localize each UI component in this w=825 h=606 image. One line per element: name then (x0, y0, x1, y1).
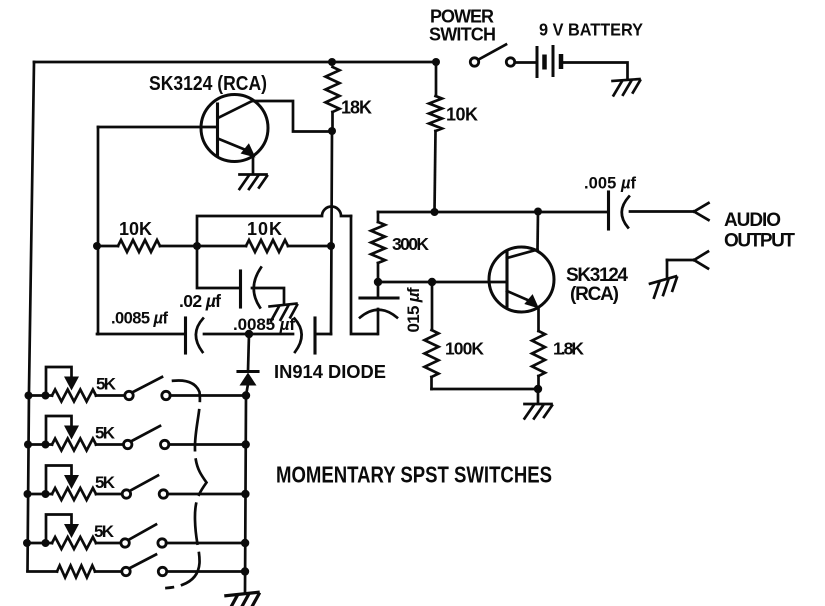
svg-text:POWER: POWER (430, 7, 494, 27)
wire caps line left (97, 333, 183, 336)
wire row 5 to bus (167, 570, 245, 573)
svg-text:.005 µf: .005 µf (584, 175, 637, 193)
capacitor C2 .0085uf plate (184, 318, 187, 353)
switch row 4 pole (96, 542, 124, 545)
capacitor C1 .02uf plate (239, 271, 242, 307)
connector audio return (667, 259, 694, 262)
transistor Q1 (98, 95, 268, 162)
switch row 3 throw (159, 490, 167, 498)
wire cap to output (630, 210, 694, 213)
node 100K top (428, 278, 436, 286)
potentiometer R1 5K (29, 367, 97, 402)
node bus row 3 (24, 490, 32, 498)
svg-text:OUTPUT: OUTPUT (724, 231, 795, 252)
svg-text:SWITCH: SWITCH (429, 25, 496, 45)
wire left bus (28, 62, 35, 571)
switch row 2 lever (132, 426, 160, 441)
wire top rail B+ (34, 61, 436, 64)
capacitor C4 .015uf top plate (377, 282, 380, 298)
wire row 2 to bus (169, 443, 246, 446)
svg-text:015 µf: 015 µf (404, 287, 423, 332)
wire Q2 base rail (378, 281, 505, 284)
node emitter ground junction (534, 385, 542, 393)
node bus row 4 (23, 539, 31, 547)
switch row 5 throw (158, 567, 166, 575)
switch row 5 pole (122, 567, 130, 575)
svg-text:5K: 5K (95, 473, 116, 492)
svg-text:SK3124: SK3124 (566, 265, 628, 286)
svg-text:IN914 DIODE: IN914 DIODE (274, 362, 386, 382)
svg-text:5K: 5K (96, 375, 117, 394)
wire row 3 to bus (167, 493, 246, 496)
svg-text:10K: 10K (446, 105, 478, 125)
wire battery to ground (563, 63, 628, 80)
switch row 1 throw (162, 391, 170, 399)
switch row 4 lever (129, 525, 156, 540)
ground battery (613, 79, 641, 95)
wire 18K bottom to collector node (328, 127, 336, 135)
wire 100K bottom to emitter node (432, 388, 539, 391)
wire hop right leg down to .015 cap (351, 216, 377, 334)
switch S1 power: pole (470, 58, 478, 66)
wire row 1 to bus (170, 394, 246, 397)
node mid 10K junction (193, 242, 201, 250)
switch S1 lever (479, 45, 507, 60)
svg-text:10K: 10K (247, 219, 282, 239)
svg-text:5K: 5K (95, 424, 116, 443)
svg-text:.0085 µf: .0085 µf (111, 310, 169, 328)
diode D1 IN914 (238, 370, 258, 373)
potentiometer R3 5K (28, 466, 97, 501)
node right 10K junction (327, 242, 335, 250)
wire mid rail to coupling cap (378, 211, 606, 214)
capacitor C4 curved plate (360, 310, 397, 318)
node Q2 collector rail (534, 208, 542, 216)
wire Q2 collector up (536, 212, 539, 251)
svg-text:18K: 18K (341, 98, 372, 118)
svg-text:100K: 100K (445, 339, 484, 359)
svg-text:9 V BATTERY: 9 V BATTERY (539, 20, 643, 40)
svg-text:MOMENTARY SPST SWITCHES: MOMENTARY SPST SWITCHES (276, 462, 552, 488)
node bus row 1 (25, 392, 33, 400)
switch row 1 pole (96, 394, 124, 397)
resistor 100K (431, 282, 434, 330)
node 10K top junction (432, 58, 440, 66)
capacitor C3 plate (313, 318, 316, 353)
ground Q2 (525, 404, 553, 419)
node 18K top junction (328, 58, 336, 66)
switch row 2 throw (161, 440, 169, 448)
resistor 18K (326, 67, 340, 112)
wire Q1 collector to 18K bottom (252, 101, 330, 132)
svg-text:.0085 µf: .0085 µf (233, 315, 295, 334)
switch S1 throw (506, 58, 514, 66)
connector audio hot (694, 203, 709, 212)
potentiometer R2 5K (28, 416, 96, 451)
wire return to ground (666, 260, 669, 278)
capacitor C1 .02uf curved plate (254, 268, 261, 308)
wire feedback top with hop (197, 207, 351, 246)
wire between caps (204, 333, 293, 336)
svg-text:SK3124 (RCA): SK3124 (RCA) (149, 73, 267, 95)
ground audio return (650, 276, 680, 298)
node Q2 base left (374, 278, 382, 286)
node right bus row 2 (242, 440, 250, 448)
switch row 3 lever (130, 476, 158, 491)
wire switch to battery (515, 61, 535, 64)
svg-text:10K: 10K (119, 219, 152, 239)
resistor 10K mid (246, 240, 288, 252)
resistor R5 row 5 (28, 570, 58, 573)
wire to ground Q2 (537, 389, 540, 403)
ground C1 (270, 304, 299, 321)
node 10K bottom (431, 208, 439, 216)
node right bus row 5 (241, 567, 249, 575)
svg-text:300K: 300K (392, 234, 429, 254)
switch row 2 pole (96, 443, 124, 446)
battery B1 9V (537, 45, 561, 78)
wire C1 to ground (252, 288, 284, 303)
node right bus row 4 (241, 539, 249, 547)
svg-text:AUDIO: AUDIO (724, 210, 781, 231)
gang brace momentary switches (167, 380, 207, 588)
wire diode top (248, 334, 249, 371)
wire Q1 base vertical (97, 127, 100, 334)
wire row 4 to bus (166, 542, 246, 545)
resistor 10K top right (435, 62, 438, 96)
potentiometer R4 5K (27, 515, 96, 550)
switch row 3 pole (96, 493, 124, 496)
ground switch bus (226, 592, 261, 606)
svg-text:5K: 5K (94, 522, 115, 541)
switch row 5 lever (130, 555, 156, 569)
capacitor C3 .0085uf curved plate (295, 319, 302, 353)
capacitor C5 curved plate (622, 197, 629, 228)
node right bus row 3 (241, 490, 249, 498)
wire right switch bus (245, 384, 248, 592)
wire collector bus vertical (331, 131, 332, 334)
capacitor C5 .005uf plate (607, 192, 610, 229)
wire caps line right leg up (315, 333, 331, 336)
resistor 1.8K (537, 308, 540, 331)
wire Q1 emitter (252, 157, 255, 174)
node bus row 2 (24, 441, 32, 449)
svg-text:1.8K: 1.8K (553, 339, 584, 359)
capacitor C2 curved plate (196, 319, 203, 353)
svg-text:.02 µf: .02 µf (179, 291, 221, 311)
wire 10K mid node down (197, 246, 238, 288)
resistor 300K (377, 212, 380, 222)
resistor 10K left (118, 240, 160, 252)
node diode tap (245, 330, 253, 338)
node right bus row 1 (242, 391, 250, 399)
transistor Q2 (489, 247, 554, 312)
ground Q1 emitter (240, 175, 268, 190)
switch row 1 lever (133, 377, 162, 392)
svg-text:(RCA): (RCA) (570, 284, 619, 305)
node base feedback left (93, 242, 101, 250)
switch row 4 throw (158, 539, 166, 547)
